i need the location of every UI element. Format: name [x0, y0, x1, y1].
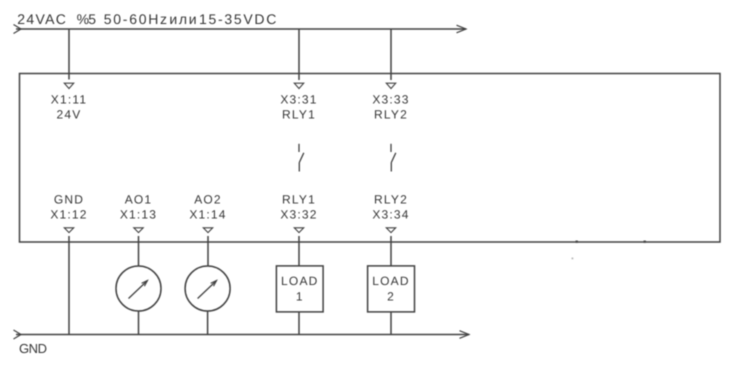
wire LOAD2 to ground bus — [390, 312, 392, 335]
chevron left end of ground bus — [14, 330, 22, 339]
svg-text:X1:12: X1:12 — [50, 208, 87, 222]
pin arrow X1:13 — [134, 228, 143, 233]
svg-text:RLY2: RLY2 — [374, 193, 408, 207]
wire RLY2 pin to LOAD 2 — [390, 236, 392, 266]
svg-text:LOAD: LOAD — [281, 274, 318, 288]
node dot on box edge — [644, 241, 646, 243]
relay contact RLY2 — [391, 144, 396, 172]
pin arrow X1:12 — [64, 228, 73, 233]
svg-text:X3:31: X3:31 — [280, 93, 317, 107]
pin arrow X3:32 — [294, 228, 303, 233]
svg-text:X1:14: X1:14 — [189, 208, 226, 222]
arrowhead right end of top bus — [457, 25, 467, 33]
wire LOAD1 to ground bus — [298, 312, 300, 335]
wire ground bus — [16, 334, 469, 336]
svg-text:LOAD: LOAD — [372, 274, 409, 288]
svg-text:50-60Hz или 15-35VDC: 50-60Hz или 15-35VDC — [104, 11, 278, 27]
node dot on box edge — [576, 241, 578, 243]
wire GND pin to ground bus — [68, 236, 70, 335]
wire drop to X1:11 — [68, 29, 70, 80]
pin arrow X1:11 — [64, 83, 73, 88]
arrowhead right end of ground bus — [460, 331, 470, 339]
svg-text:RLY1: RLY1 — [282, 193, 316, 207]
load LOAD1 — [276, 266, 323, 312]
svg-text:2: 2 — [387, 290, 395, 304]
wire drop to X3:31 — [298, 29, 300, 80]
svg-text:AO2: AO2 — [194, 193, 222, 207]
wire meter M2 to ground bus — [207, 311, 209, 335]
svg-text:AO1: AO1 — [125, 193, 153, 207]
svg-text:X3:33: X3:33 — [372, 93, 409, 107]
node dot stray — [572, 258, 574, 260]
svg-text:X3:34: X3:34 — [372, 208, 409, 222]
wire AO2 pin to meter M2 — [207, 236, 209, 266]
controller box U1 — [20, 74, 721, 243]
svg-text:X3:32: X3:32 — [280, 208, 317, 222]
svg-text:RLY2: RLY2 — [374, 108, 408, 122]
chevron left end of top bus — [14, 25, 22, 34]
meter M2 — [185, 266, 230, 311]
wire top supply bus — [16, 28, 466, 30]
wire drop to X3:33 — [390, 29, 392, 80]
relay contact RLY1 — [299, 144, 304, 172]
pin arrow X1:14 — [203, 228, 212, 233]
wire meter M1 to ground bus — [138, 311, 140, 335]
wire RLY1 pin to LOAD 1 — [298, 236, 300, 266]
svg-text:RLY1: RLY1 — [282, 108, 316, 122]
wire AO1 pin to meter M1 — [138, 236, 140, 266]
meter M1 — [116, 266, 161, 311]
svg-text:24V: 24V — [57, 108, 82, 122]
svg-text:X1:11: X1:11 — [51, 93, 87, 107]
svg-text:GND: GND — [54, 193, 84, 207]
load LOAD2 — [368, 266, 415, 312]
svg-text:GND: GND — [19, 341, 47, 356]
svg-text:1: 1 — [296, 290, 304, 304]
pin arrow X3:33 — [386, 83, 395, 88]
svg-text:24VAC: 24VAC — [17, 11, 67, 27]
pin arrow X3:34 — [386, 228, 395, 233]
svg-text:%5: %5 — [77, 11, 97, 27]
svg-text:X1:13: X1:13 — [120, 208, 157, 222]
pin arrow X3:31 — [294, 83, 303, 88]
